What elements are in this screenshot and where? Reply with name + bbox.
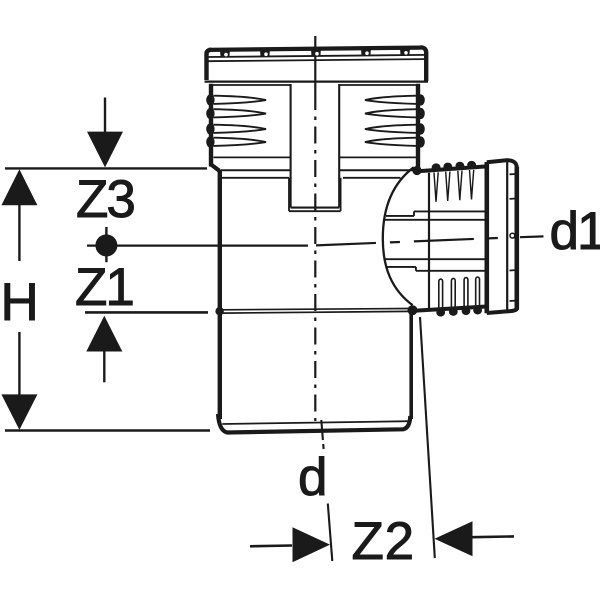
- top socket body walls: [211, 84, 418, 171]
- top socket channel lip: [289, 178, 341, 211]
- branch saddle intersection arc: [383, 167, 414, 305]
- joint bead left: [215, 307, 223, 315]
- branch socket top edge: [416, 166, 487, 171]
- wire: bottom extension line (pipe end plane): [5, 429, 210, 432]
- svg-text:Z1: Z1: [75, 258, 133, 317]
- wire: top extension line (socket end plane): [5, 167, 207, 169]
- branch junction bead top: [412, 166, 421, 175]
- wire: Z1 extension line: [85, 311, 208, 314]
- top socket cap rim mould dots: [220, 48, 410, 58]
- svg-text:Z2: Z2: [352, 512, 415, 571]
- top socket corrugation ribs right (4) with outer beads: [365, 94, 425, 147]
- wire: branch horizontal centerline (dash-dot): [316, 237, 519, 245]
- svg-text:d1: d1: [550, 202, 600, 261]
- dimension Z3 arrow: [87, 98, 123, 168]
- branch socket bottom edge: [414, 307, 487, 311]
- top socket rib-zone bottom edges: [214, 156, 417, 158]
- branch lower rib beads: [436, 306, 482, 317]
- node: centre reference dot with cross ticks: [87, 227, 308, 262]
- top socket inner channel: [291, 84, 340, 208]
- branch end cap rim dot: [510, 233, 515, 238]
- top socket corrugation ribs left (4) with outer beads: [206, 94, 266, 147]
- top socket left wall jog to pipe wall: [211, 165, 220, 171]
- main pipe right wall (below branch): [409, 310, 413, 420]
- branch lower rib slivers: [439, 277, 480, 309]
- svg-text:d: d: [298, 448, 327, 507]
- main pipe bottom end: [218, 414, 410, 433]
- branch socket depth line: [428, 173, 430, 309]
- wire: main pipe vertical centerline: [314, 36, 316, 421]
- branch end cap rim ticks: [510, 174, 516, 301]
- dimension H arrows and line: [1, 169, 37, 430]
- joint bead right (branch lower corner): [408, 305, 418, 315]
- branch upper rib slivers: [434, 170, 474, 202]
- branch end cap: [487, 160, 517, 313]
- main pipe mid joint double line: [222, 309, 410, 314]
- wire: slanted extension line through d (pipe axis extended): [321, 420, 332, 561]
- top socket shoulder lines: [221, 169, 414, 171]
- branch socket interior bore lines: [385, 211, 487, 270]
- top socket inner lip lines: [222, 177, 401, 179]
- wire: slanted extension line at branch end: [420, 317, 435, 558]
- svg-text:H: H: [1, 273, 39, 332]
- svg-text:Z3: Z3: [76, 170, 134, 229]
- dimension Z2 arrows: [250, 521, 514, 562]
- main pipe left wall: [218, 170, 222, 419]
- top socket cap rim: [205, 47, 429, 81]
- wire: d1 leader line: [520, 235, 544, 238]
- branch upper rib beads: [432, 161, 476, 171]
- dimension Z1 arrow: [86, 316, 122, 383]
